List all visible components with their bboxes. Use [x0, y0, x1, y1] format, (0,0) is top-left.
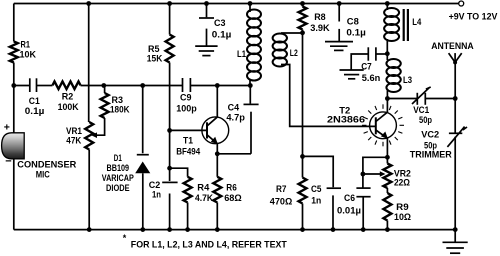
capacitor C5	[303, 156, 334, 187]
capacitor C1	[29, 78, 31, 92]
svg-text:68Ω: 68Ω	[224, 193, 242, 204]
svg-text:*: *	[123, 233, 127, 243]
capacitor C7	[351, 54, 368, 70]
T2 heat rays	[362, 104, 404, 146]
ground (C7)	[340, 70, 364, 79]
resistor R1	[10, 42, 18, 63]
wire T2 emitter down	[386, 138, 388, 157]
capacitor C2	[162, 181, 177, 183]
svg-text:−: −	[5, 155, 11, 167]
wire T2 collector up	[386, 99, 388, 113]
svg-text:C6: C6	[344, 193, 355, 204]
+9V terminal	[459, 1, 464, 6]
potentiometer VR2	[386, 157, 388, 163]
svg-text:L2: L2	[290, 48, 298, 59]
transistor T2	[370, 112, 397, 139]
svg-text:3.9K: 3.9K	[310, 23, 330, 34]
svg-text:BF494: BF494	[176, 146, 201, 157]
svg-text:VC2: VC2	[421, 130, 439, 141]
resistor R5	[166, 35, 174, 63]
svg-text:R6: R6	[226, 182, 237, 193]
svg-text:+: +	[4, 121, 10, 133]
svg-text:0.1µ: 0.1µ	[25, 106, 45, 117]
svg-text:15K: 15K	[147, 54, 163, 65]
wire antenna down	[454, 62, 456, 132]
wire audio line mic to C1	[14, 85, 30, 87]
node L4 top rail	[385, 1, 390, 6]
capacitor C9	[182, 78, 184, 92]
svg-text:470Ω: 470Ω	[270, 196, 293, 207]
svg-text:10K: 10K	[20, 49, 37, 60]
svg-text:R7: R7	[276, 184, 287, 195]
wire T1 base lead	[170, 129, 207, 131]
svg-text:5.6n: 5.6n	[362, 73, 381, 84]
wire R3 bottom to VR1 wiper	[96, 118, 105, 135]
svg-text:R8: R8	[314, 12, 326, 23]
svg-text:4.7p: 4.7p	[226, 112, 245, 123]
svg-text:C8: C8	[347, 16, 359, 27]
node R7 top	[300, 154, 305, 159]
svg-text:100p: 100p	[176, 103, 197, 114]
capacitor C8	[337, 1, 342, 6]
VR2 wiper from C6 node	[363, 173, 381, 175]
node mic/C1 junction	[11, 83, 16, 88]
wire C4 bottom to T1 emitter	[217, 153, 251, 155]
svg-text:180K: 180K	[110, 104, 130, 115]
svg-text:ANTENNA: ANTENNA	[431, 41, 474, 52]
svg-text:MIC: MIC	[36, 169, 50, 180]
wire T1 collector up	[216, 86, 218, 118]
wire rail to R5	[169, 4, 171, 35]
svg-text:50p: 50p	[419, 115, 432, 126]
wire mic bottom to ground rail	[13, 159, 15, 230]
ground (main)	[454, 230, 456, 243]
capacitor C6	[363, 157, 388, 187]
resistor R6	[216, 154, 218, 177]
svg-text:C9: C9	[180, 92, 192, 103]
resistor R3	[104, 86, 106, 94]
potentiometer VR1	[85, 122, 93, 150]
svg-text:+9V TO 12V: +9V TO 12V	[449, 11, 498, 22]
resistor R2	[53, 82, 81, 90]
wire C1 to R2	[37, 85, 53, 87]
variable capacitor VC1	[387, 98, 417, 100]
svg-text:22Ω: 22Ω	[394, 178, 410, 189]
resistor R4	[184, 177, 192, 203]
wire top supply rail	[14, 3, 459, 5]
wire VR1 supply drop	[88, 4, 90, 123]
svg-text:10Ω: 10Ω	[394, 212, 411, 223]
wire R2 to C9	[81, 85, 183, 87]
inductor L4	[386, 4, 388, 11]
svg-text:R4: R4	[197, 182, 210, 193]
svg-text:1n: 1n	[311, 195, 321, 206]
svg-text:T1: T1	[183, 136, 194, 147]
transistor T1	[202, 117, 229, 144]
wire left column top rail to R1	[13, 4, 15, 42]
inductor L1	[249, 4, 251, 13]
svg-text:0.01µ: 0.01µ	[337, 205, 361, 216]
svg-text:DIODE: DIODE	[106, 183, 130, 194]
node ground rail right end	[453, 227, 458, 232]
svg-text:L1: L1	[237, 49, 247, 60]
svg-text:1n: 1n	[152, 190, 161, 201]
wire T1 emitter down	[216, 144, 218, 154]
svg-text:0.1µ: 0.1µ	[346, 27, 366, 38]
wire R5 bottom through base node to C2	[169, 63, 171, 182]
svg-text:FOR L1, L2, L3 AND L4, REFER T: FOR L1, L2, L3 AND L4, REFER TEXT	[131, 239, 287, 250]
wire C9 to L1 bottom	[190, 85, 250, 87]
svg-text:4.7K: 4.7K	[195, 193, 213, 204]
capacitor C4	[249, 86, 251, 104]
resistor R7	[302, 156, 304, 177]
wire bottom ground rail	[14, 229, 458, 231]
resistor R9	[386, 188, 388, 193]
wire VR1 bottom to ground rail	[88, 150, 90, 230]
wire R1 bottom to mic	[13, 63, 15, 134]
svg-text:2N3866: 2N3866	[327, 115, 365, 126]
svg-text:0.1µ: 0.1µ	[212, 29, 232, 40]
wire R4 branch	[170, 168, 188, 177]
ground (C3)	[195, 46, 217, 56]
svg-text:C3: C3	[214, 18, 226, 29]
trimmer capacitor VC2	[449, 132, 462, 134]
node R5 top rail	[167, 1, 172, 6]
varicap diode D1	[142, 86, 144, 154]
capacitor C3	[204, 1, 209, 6]
node R4/C2 branch	[167, 166, 172, 171]
node R8 top rail	[300, 1, 305, 6]
inductor L3	[386, 59, 400, 92]
svg-text:TRIMMER: TRIMMER	[410, 149, 452, 160]
resistor R8	[302, 4, 304, 7]
node R3 top	[101, 83, 106, 88]
inductor L2	[281, 32, 303, 34]
ground (C8)	[325, 42, 353, 51]
node T1 base	[167, 128, 172, 133]
svg-text:C5: C5	[311, 184, 322, 195]
node L1 top rail	[248, 1, 253, 6]
node D1 top	[140, 83, 145, 88]
svg-text:L4: L4	[412, 17, 422, 28]
svg-text:L3: L3	[403, 75, 412, 86]
svg-text:100K: 100K	[58, 102, 79, 113]
svg-text:47K: 47K	[66, 136, 81, 147]
